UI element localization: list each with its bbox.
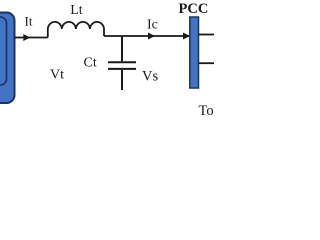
svg-text:PCC: PCC	[179, 1, 209, 17]
svg-text:Lt: Lt	[70, 3, 83, 18]
capacitor Ct bottom lead	[121, 70, 123, 90]
capacitor Ct bottom plate	[108, 68, 136, 70]
PCC bus bar	[190, 17, 199, 88]
feeder wire 2 (right of PCC)	[199, 62, 215, 64]
svg-text:It: It	[25, 14, 33, 29]
svg-text:To: To	[199, 103, 214, 119]
feeder wire 1 (right of PCC)	[199, 34, 215, 36]
capacitor Ct top plate	[108, 61, 136, 63]
wire (inductor to PCC bus)	[104, 35, 190, 37]
arrow into PCC	[183, 33, 190, 40]
wire (source to inductor)	[14, 37, 48, 39]
capacitor Ct top lead	[121, 36, 123, 61]
current arrow Ic	[148, 33, 155, 40]
svg-text:Vs: Vs	[142, 69, 158, 85]
current arrow It	[23, 34, 30, 41]
source bus (left blue rounded rectangle, cut off at left edge)	[0, 13, 15, 104]
svg-text:Ic: Ic	[147, 18, 158, 33]
inner outline of source bus	[0, 17, 7, 85]
svg-text:Vt: Vt	[50, 68, 64, 83]
inductor Lt	[48, 22, 104, 38]
svg-text:Ct: Ct	[84, 56, 97, 71]
